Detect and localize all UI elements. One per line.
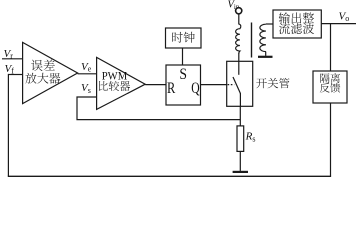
wire Vf input stub (8, 74, 22, 76)
wire U6 to feedback bottom run (330, 103, 332, 176)
ground main (233, 171, 248, 173)
wire U5 output Vo rail (321, 23, 356, 25)
wire R1 to ground (239, 151, 241, 171)
wire U3 Q output to Q1 (201, 84, 228, 86)
transformer T1 primary winding (236, 24, 241, 54)
svg-text:R: R (167, 80, 176, 97)
wire T1 primary to Q1 top contact (238, 54, 240, 62)
block U5 output rectifier filter (273, 10, 321, 38)
transformer T1 core (251, 23, 253, 58)
svg-text:Q: Q (191, 80, 199, 97)
resistor R1 Rs (237, 126, 244, 151)
svg-text:PWM: PWM (102, 71, 128, 83)
comparator U2 PWM (97, 57, 146, 109)
label Q1 switch transistor (256, 78, 289, 88)
wire Vin to T1 primary (238, 14, 240, 25)
svg-text:S: S (179, 66, 187, 83)
wire feedback bottom run (8, 175, 331, 177)
flip-flop U3 RS latch (166, 65, 201, 105)
wire T1 secondary to U5 (266, 23, 273, 25)
wire Vr input stub (2, 58, 23, 60)
wire dashed control link (228, 84, 235, 86)
wire Ve (78, 73, 97, 75)
wire U4 clock to U3 S input (182, 48, 184, 65)
switch Q1 enclosure (227, 61, 253, 106)
block U6 isolation feedback (313, 71, 347, 103)
wire Q1 to R1 (239, 106, 241, 126)
wire feedback left riser (7, 74, 9, 176)
ground T1 secondary return (258, 52, 273, 57)
transformer T1 secondary winding (260, 24, 266, 51)
wire Vs sense from Rs node (77, 97, 240, 120)
wire Vo junction to U6 (330, 24, 332, 71)
wire U2 output to U3 R input (145, 84, 166, 86)
switch Q1 contacts and blade (233, 61, 241, 106)
terminal Vin (236, 8, 242, 14)
clock U4 (166, 28, 202, 48)
op-amp U1 error amplifier (23, 42, 78, 103)
